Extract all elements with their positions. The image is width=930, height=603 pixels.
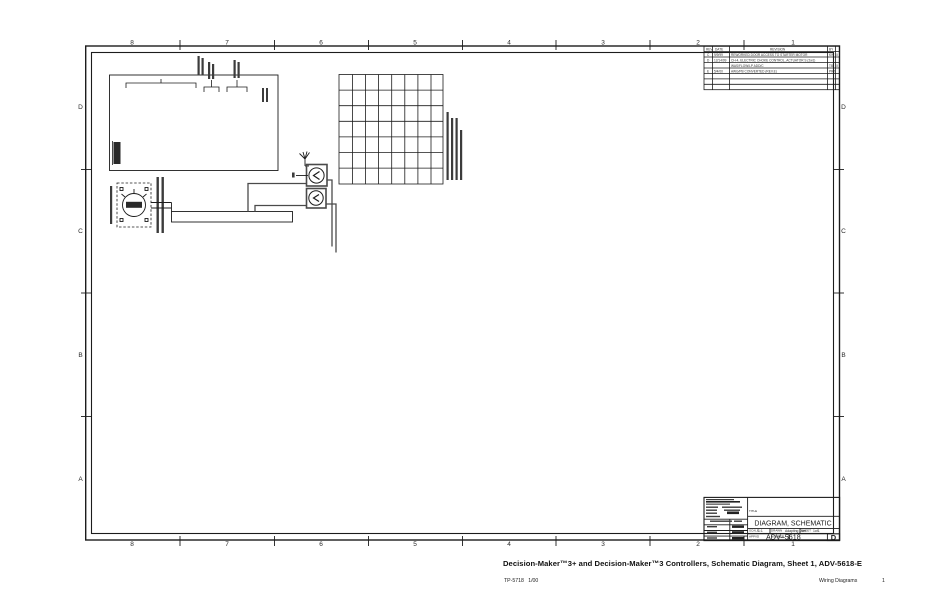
zone tick marks top bbox=[180, 40, 744, 50]
label customer connection note bbox=[262, 88, 268, 102]
svg-text:TP-5718 1/00: TP-5718 1/00 bbox=[504, 578, 538, 584]
svg-text:C: C bbox=[841, 228, 846, 235]
svg-text:E: E bbox=[707, 69, 709, 73]
legend header vertical text TB1 P/N bbox=[0, 0, 1, 1]
svg-text:8: 8 bbox=[130, 541, 134, 548]
svg-text:CH-4, ELECTRIC CHOKE CONTROL,: CH-4, ELECTRIC CHOKE CONTROL, ACTUATOR S… bbox=[731, 58, 815, 62]
svg-text:5/4/00: 5/4/00 bbox=[714, 69, 723, 73]
svg-text:1:1: 1:1 bbox=[758, 529, 763, 533]
svg-text:WAS/FLOW/LP ADD/C: WAS/FLOW/LP ADD/C bbox=[731, 64, 764, 68]
label off-reset selector switch bbox=[110, 186, 112, 224]
svg-text:2: 2 bbox=[696, 541, 700, 548]
svg-text:B: B bbox=[841, 352, 845, 359]
svg-text:Wiring Diagrams: Wiring Diagrams bbox=[819, 578, 858, 584]
label used for alarm accessories bbox=[234, 60, 240, 78]
svg-text:C: C bbox=[707, 53, 710, 57]
svg-text:D: D bbox=[78, 104, 83, 111]
svg-text:6: 6 bbox=[319, 541, 323, 548]
zone tick marks right bbox=[834, 170, 844, 417]
svg-text:8: 8 bbox=[130, 40, 134, 47]
legend bracket meter option bbox=[204, 80, 219, 92]
svg-text:2: 2 bbox=[696, 40, 700, 47]
label standard control bbox=[198, 56, 204, 75]
ammeter M1 bbox=[307, 165, 328, 187]
contactor contacts bbox=[0, 0, 1, 1]
ground symbol above ammeter bbox=[300, 152, 310, 167]
legend terminal description list bbox=[0, 0, 1, 1]
svg-text:APPVD: APPVD bbox=[749, 534, 760, 538]
contactor terminal labels C1 C2 C3 V7 V8 V9 bbox=[0, 0, 1, 1]
svg-text:X: X bbox=[836, 53, 839, 57]
voltmeter M2 bbox=[307, 189, 327, 209]
legend terminal numbers row bbox=[0, 0, 1, 1]
matrix contact letters bbox=[0, 0, 1, 1]
svg-text:REV: REV bbox=[706, 47, 713, 51]
title block bbox=[704, 497, 840, 540]
title block texts bbox=[749, 509, 837, 542]
title block left column small print bbox=[706, 499, 744, 539]
svg-text:12/14/99: 12/14/99 bbox=[714, 58, 727, 62]
svg-text:D: D bbox=[707, 58, 710, 62]
svg-text:TB: TB bbox=[829, 64, 833, 68]
node C wire to ammeter bbox=[292, 173, 308, 178]
svg-text:7: 7 bbox=[225, 541, 229, 548]
legend bracket alarm accessories bbox=[227, 80, 247, 92]
zone numbers top bbox=[130, 40, 795, 47]
svg-text:1: 1 bbox=[791, 40, 795, 47]
svg-text:4: 4 bbox=[507, 541, 511, 548]
matrix row selector symbols bbox=[0, 0, 1, 1]
zone tick marks left bbox=[81, 170, 91, 417]
svg-text:3: 3 bbox=[601, 541, 605, 548]
legend TERMINAL header bbox=[113, 141, 121, 165]
zone numbers bottom bbox=[130, 541, 795, 548]
zone letters left bbox=[78, 104, 83, 483]
matrix top pin labels bbox=[0, 0, 1, 1]
matrix bottom pin numbers bbox=[0, 0, 1, 1]
revision table bbox=[704, 46, 840, 89]
selector switch SW1 bbox=[117, 183, 151, 227]
revision table text bbox=[706, 47, 839, 73]
label required with meter option bbox=[208, 62, 214, 79]
rotary switch matrix table bbox=[339, 75, 443, 185]
label contacter shown with switch in off position bbox=[157, 177, 164, 233]
wire selector to contactor bbox=[151, 203, 172, 212]
svg-text:1of1: 1of1 bbox=[813, 529, 820, 533]
svg-text:9/9/99: 9/9/99 bbox=[714, 53, 723, 57]
svg-text:DIAGRAM, SCHEMATIC: DIAGRAM, SCHEMATIC bbox=[754, 521, 831, 528]
svg-text:B: B bbox=[78, 352, 82, 359]
contactor assembly box bbox=[172, 212, 293, 223]
contactor lower terminals bbox=[0, 0, 1, 1]
svg-text:6: 6 bbox=[319, 40, 323, 47]
svg-text:1: 1 bbox=[882, 578, 885, 584]
contactor tent links bbox=[0, 0, 1, 1]
svg-text:7: 7 bbox=[225, 40, 229, 47]
svg-text:AWG/PB CONVERTED (REV.E): AWG/PB CONVERTED (REV.E) bbox=[731, 69, 777, 73]
zone tick marks bottom bbox=[180, 536, 744, 546]
svg-text:4: 4 bbox=[507, 40, 511, 47]
svg-text:Decision-Maker™3+ and Decision: Decision-Maker™3+ and Decision-Maker™3 C… bbox=[503, 559, 862, 568]
svg-text:D: D bbox=[831, 533, 837, 542]
svg-text:KW: KW bbox=[829, 53, 834, 57]
svg-text:REWORKED DOOR ACCESS TO STARTE: REWORKED DOOR ACCESS TO STARTER MOTOR bbox=[731, 53, 808, 57]
svg-text:1: 1 bbox=[791, 541, 795, 548]
svg-text:REVISION: REVISION bbox=[770, 47, 786, 51]
legend bracket standard control bbox=[126, 79, 196, 88]
svg-text:3: 3 bbox=[601, 40, 605, 47]
svg-text:A: A bbox=[78, 476, 83, 483]
svg-text:5: 5 bbox=[413, 541, 417, 548]
svg-text:5: 5 bbox=[413, 40, 417, 47]
border inner frame bbox=[92, 53, 834, 534]
wires meters to buses bbox=[248, 180, 336, 253]
footer text left bbox=[504, 578, 538, 584]
svg-text:A: A bbox=[841, 476, 846, 483]
svg-text:ADV–5618: ADV–5618 bbox=[766, 533, 801, 542]
svg-text:D: D bbox=[841, 104, 846, 111]
svg-text:SHEET: SHEET bbox=[801, 528, 811, 532]
footer text right bbox=[819, 578, 885, 584]
border outer frame bbox=[86, 46, 840, 540]
note rotary switch bbox=[447, 112, 463, 180]
svg-text:BY: BY bbox=[829, 47, 834, 51]
caption text bbox=[503, 559, 862, 568]
svg-text:PRT: PRT bbox=[829, 69, 835, 73]
svg-text:DATE: DATE bbox=[715, 47, 723, 51]
svg-text:C: C bbox=[78, 228, 83, 235]
zone letters right bbox=[841, 104, 846, 483]
terminal legend box TB1 bbox=[110, 75, 279, 171]
svg-text:X: X bbox=[836, 64, 839, 68]
svg-text:TITLE: TITLE bbox=[749, 509, 757, 513]
